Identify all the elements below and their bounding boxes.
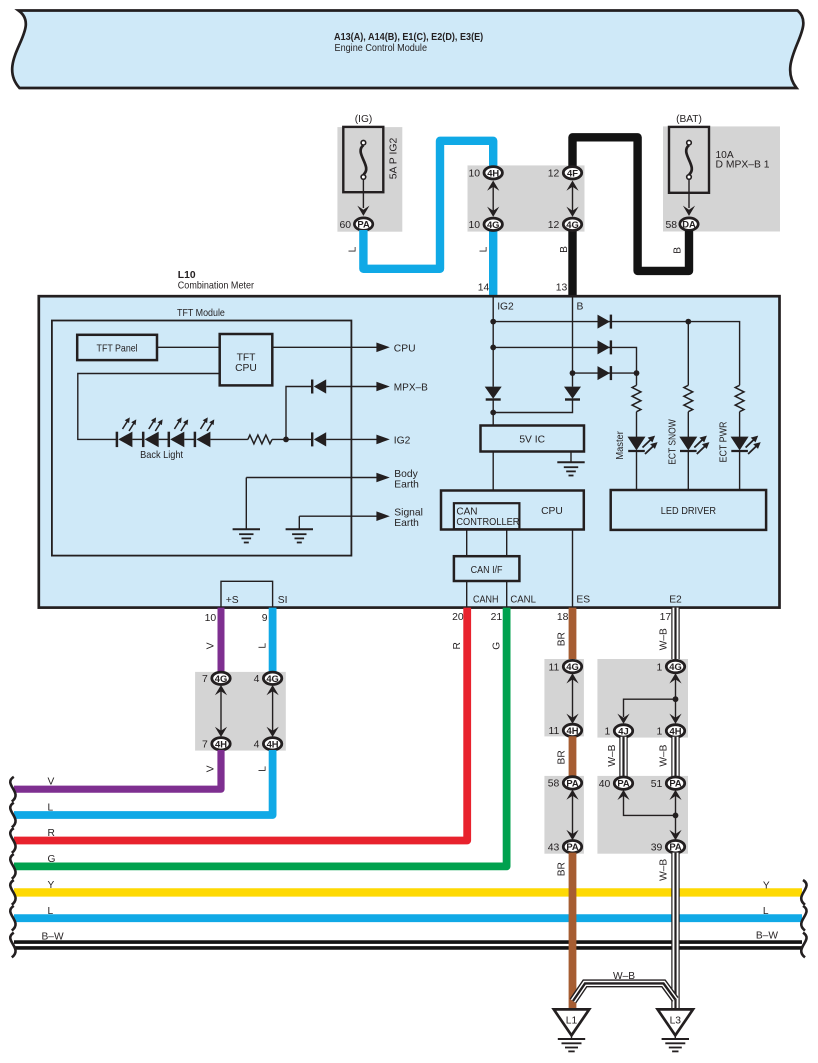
junction arrows 4G to 4H (BR): [566, 673, 578, 724]
svg-text:B: B: [577, 302, 584, 313]
wire TFT CPU to CPU output arrow: [272, 343, 415, 355]
TFT CPU box: [220, 334, 273, 385]
wire R (red) pin 20 to left edge: [14, 608, 467, 841]
connector 4H pin 1 (W-B): [657, 725, 685, 738]
diode MPX-B: [312, 379, 326, 393]
svg-text:5V IC: 5V IC: [519, 435, 545, 446]
resistor backlight: [248, 435, 272, 444]
wire B (black) from DA to connector 4F and meter pin 13: [573, 137, 690, 271]
wire L (blue) from PA to connector 4H and meter pin 14: [363, 141, 493, 269]
squiggle B-W left: [10, 933, 15, 958]
svg-text:10: 10: [468, 220, 480, 231]
connector PA pin 60: [339, 218, 372, 231]
svg-text:PA: PA: [566, 777, 579, 788]
diode IG2 backlight: [312, 432, 326, 446]
squiggle L left: [10, 803, 15, 828]
svg-text:PA: PA: [566, 841, 579, 852]
connector 4G pin 12: [548, 218, 582, 231]
connector shading box (BR PA-PA): [544, 776, 584, 854]
wire BR pin 18 to 4G: [569, 608, 577, 661]
LED DRIVER box: [611, 490, 766, 530]
resistor ECT SNOW: [684, 322, 693, 437]
combination meter L10 box: [39, 270, 780, 607]
svg-text:Y: Y: [48, 880, 55, 891]
svg-text:10: 10: [468, 169, 480, 180]
svg-text:14: 14: [478, 282, 490, 293]
+S / SI pin box: [221, 581, 288, 607]
connector shading box (4H/4G junction area): [468, 165, 585, 231]
wire W-B link L1 to L3: [573, 971, 675, 1001]
wire 40PA joins 51PA line: [617, 790, 681, 841]
svg-text:17: 17: [660, 612, 672, 623]
svg-text:(BAT): (BAT): [676, 114, 702, 125]
wire L (blue) bus: [14, 914, 802, 922]
svg-text:(IG): (IG): [355, 114, 373, 125]
resistor ECT PWR: [735, 385, 744, 437]
svg-text:CPU: CPU: [394, 343, 416, 354]
svg-text:L: L: [479, 246, 490, 252]
connector PA pin 58: [548, 777, 582, 790]
node row1 branch ECT SNOW: [685, 319, 691, 325]
squiggle V left: [10, 777, 15, 802]
svg-text:CANL: CANL: [510, 594, 536, 605]
svg-text:1: 1: [657, 662, 663, 673]
fuse 5A P IG2 (IG): [343, 114, 399, 192]
svg-text:G: G: [491, 642, 502, 650]
connector shading box (W-B PA-PA-PA): [597, 776, 688, 854]
resistor Master: [632, 373, 641, 437]
svg-text:4: 4: [254, 740, 260, 751]
svg-text:4G: 4G: [266, 673, 279, 684]
svg-text:W–B: W–B: [659, 744, 670, 766]
svg-text:CAN I/F: CAN I/F: [471, 565, 503, 576]
diode row 3: [598, 366, 611, 380]
wire diodes join to 5V IC: [492, 400, 494, 426]
svg-text:L: L: [348, 246, 359, 252]
svg-text:L: L: [763, 906, 769, 917]
ground body earth: [233, 529, 260, 542]
connector PA pin 43: [548, 841, 582, 854]
node row2 on IG2: [490, 345, 496, 351]
svg-text:BR: BR: [557, 862, 568, 876]
connector 4H pin 10: [468, 167, 502, 180]
svg-text:4G: 4G: [215, 673, 228, 684]
svg-text:R: R: [48, 828, 55, 839]
connector DA pin 58: [665, 218, 698, 231]
svg-text:B–W: B–W: [756, 931, 778, 942]
svg-text:PA: PA: [617, 778, 630, 789]
svg-text:LED DRIVER: LED DRIVER: [661, 506, 716, 517]
svg-text:V: V: [206, 765, 217, 772]
svg-text:TFT Panel: TFT Panel: [97, 343, 138, 354]
squiggle L2 left: [10, 906, 15, 931]
svg-text:W–B: W–B: [659, 628, 670, 650]
CAN I/F box: [454, 556, 520, 581]
connector 4G pin 4: [254, 672, 282, 685]
node row3 on B: [570, 370, 576, 376]
fuse 10A D MPX-B 1 (BAT): [669, 114, 770, 193]
svg-text:10: 10: [205, 613, 217, 624]
ECM banner A13(A) A14(B) E1(C) E2(D) E3(E): [12, 11, 803, 89]
wire TFT Panel to TFT CPU: [157, 346, 220, 348]
squiggle L right: [801, 906, 806, 931]
5V IC box: [481, 426, 585, 452]
ground 5V IC: [557, 462, 584, 475]
svg-text:4H: 4H: [267, 738, 279, 749]
connector PA pin 40: [599, 777, 633, 790]
ground L1: [554, 1009, 589, 1051]
squiggle Y right: [801, 880, 806, 905]
wire resistor to node: [272, 438, 312, 440]
svg-text:4H: 4H: [215, 738, 227, 749]
svg-text:L: L: [258, 643, 269, 649]
wire: [184, 438, 195, 440]
svg-text:BR: BR: [557, 632, 568, 646]
LED ECT PWR: [719, 422, 761, 491]
svg-text:11: 11: [549, 662, 560, 673]
wire V (violet) 4H to left edge: [14, 750, 221, 789]
svg-text:5A P IG2: 5A P IG2: [388, 137, 399, 179]
svg-text:20: 20: [452, 612, 464, 623]
backlight LED 3: [169, 417, 188, 447]
svg-text:40: 40: [599, 779, 611, 790]
connector shading box (BR 4G-4H): [544, 659, 584, 736]
connector shading box (IG fuse area): [337, 127, 402, 232]
wire diode row 3: [573, 372, 637, 374]
svg-text:58: 58: [548, 779, 560, 790]
svg-text:B: B: [673, 247, 684, 254]
svg-text:13: 13: [556, 282, 568, 293]
ground L3: [658, 1009, 693, 1051]
svg-text:W–B: W–B: [613, 971, 635, 982]
squiggle B-W right: [801, 933, 806, 958]
svg-text:18: 18: [557, 612, 569, 623]
connector 4H pin 11: [549, 724, 582, 737]
node row1 on IG2: [490, 319, 496, 325]
svg-text:G: G: [48, 854, 56, 865]
connector 4F pin 12: [548, 167, 582, 180]
connector 4G pin 11: [549, 660, 582, 673]
svg-text:L: L: [258, 766, 269, 772]
connector 4J pin 1: [605, 725, 633, 738]
TFT Module box: [52, 308, 352, 556]
junction arrows PA to PA (BR): [566, 790, 578, 841]
connector shading box (+S/SI 4G-4H): [195, 672, 286, 751]
svg-text:V: V: [206, 642, 217, 649]
svg-text:4H: 4H: [567, 725, 579, 736]
wire L (blue) 4H to left edge: [14, 750, 273, 815]
svg-text:L1: L1: [566, 1015, 578, 1026]
svg-text:W–B: W–B: [607, 744, 618, 766]
diode IG2 to 5V: [485, 387, 502, 400]
wire W-B pin 17 to 4G: [671, 608, 679, 661]
svg-text:4F: 4F: [567, 167, 578, 178]
svg-text:9: 9: [262, 613, 268, 624]
svg-text:BR: BR: [557, 750, 568, 764]
wire Y (yellow) bus: [14, 888, 802, 896]
svg-text:ECT PWR: ECT PWR: [719, 422, 730, 463]
wire diode row 2: [493, 347, 636, 373]
svg-text:PA: PA: [669, 778, 682, 789]
TFT Panel box: [77, 335, 157, 360]
wire V (violet) pin 10 to 4G: [218, 608, 225, 673]
svg-text:MPX–B: MPX–B: [394, 383, 428, 394]
CPU box: [441, 491, 584, 530]
wire B vertical: [572, 298, 574, 387]
svg-text:12: 12: [548, 220, 560, 231]
svg-text:B: B: [559, 246, 570, 253]
svg-text:V: V: [48, 777, 55, 788]
wire: [159, 438, 169, 440]
svg-text:4J: 4J: [618, 725, 628, 736]
junction arrows 4G to 4H (V): [215, 685, 227, 737]
connector 4H pin 7: [202, 738, 230, 751]
wire G (green) pin 21 to left edge: [14, 608, 507, 867]
svg-text:DA: DA: [682, 218, 696, 229]
svg-text:60: 60: [339, 220, 351, 231]
ground signal earth: [286, 529, 313, 542]
wire node up to MPX-B diode row: [286, 387, 312, 440]
svg-text:Signal: Signal: [394, 508, 423, 519]
wire 4G to 4H with branch to 4J: [617, 673, 681, 724]
svg-text:4G: 4G: [487, 219, 500, 230]
diode row 1: [598, 315, 611, 329]
svg-text:B–W: B–W: [42, 932, 64, 943]
svg-text:4H: 4H: [487, 167, 499, 178]
svg-text:Back Light: Back Light: [140, 450, 183, 461]
LED Master: [615, 431, 657, 490]
connector 4H pin 4: [254, 738, 282, 751]
svg-text:4H: 4H: [670, 725, 682, 736]
svg-text:Engine Control Module: Engine Control Module: [335, 43, 428, 54]
svg-text:1: 1: [657, 727, 663, 738]
connector shading box (BAT fuse area): [663, 126, 780, 231]
wire BR 43PA to ground L1: [569, 853, 577, 1010]
svg-text:7: 7: [202, 740, 208, 751]
squiggle R left: [10, 828, 15, 853]
wire CAN controller to CAN I/F (CANL): [506, 529, 508, 556]
svg-text:L: L: [48, 803, 54, 814]
svg-text:4G: 4G: [566, 661, 579, 672]
wire L (blue) pin 9 to 4G: [269, 608, 277, 673]
wire: [132, 438, 143, 440]
svg-text:51: 51: [651, 779, 663, 790]
wire diode row 1: [493, 322, 739, 386]
svg-text:ES: ES: [576, 594, 590, 605]
backlight LED 2: [143, 417, 162, 447]
svg-text:A13(A), A14(B), E1(C), E2(D),: A13(A), A14(B), E1(C), E2(D), E3(E): [334, 32, 483, 43]
svg-text:4G: 4G: [669, 661, 682, 672]
wire 5V IC to CPU: [492, 452, 494, 491]
connector shading box (W-B 4G-4J-4H): [597, 659, 688, 738]
backlight LED 4: [195, 417, 214, 447]
svg-text:ECT SNOW: ECT SNOW: [667, 419, 678, 465]
svg-text:R: R: [452, 642, 463, 649]
connector 4G pin 10: [468, 218, 502, 231]
wire W-B 4H to 51PA: [671, 737, 679, 777]
svg-text:12: 12: [548, 169, 560, 180]
svg-text:CONTROLLER: CONTROLLER: [456, 517, 519, 528]
junction arrows 4G to 4H (L): [267, 685, 279, 737]
wire CPU to pin ES: [572, 530, 574, 608]
svg-text:Earth: Earth: [394, 518, 419, 529]
svg-text:IG2: IG2: [394, 435, 411, 446]
connector 4G pin 7: [202, 672, 230, 685]
wire CAN controller to CAN I/F (CANH): [466, 529, 468, 556]
diode row 2: [598, 340, 611, 354]
wire B-W (black-white) bus: [14, 940, 802, 949]
backlight LED 1: [117, 417, 136, 447]
svg-text:1: 1: [605, 727, 611, 738]
svg-text:58: 58: [665, 220, 677, 231]
svg-text:39: 39: [651, 843, 663, 854]
wire IG2 vertical: [492, 298, 494, 387]
svg-text:PA: PA: [357, 218, 370, 229]
svg-text:IG2: IG2: [497, 302, 514, 313]
svg-text:TFT Module: TFT Module: [177, 308, 225, 319]
svg-text:Earth: Earth: [394, 479, 419, 490]
svg-text:D MPX–B 1: D MPX–B 1: [716, 160, 770, 171]
wire to resistor: [210, 438, 248, 440]
svg-text:43: 43: [548, 843, 560, 854]
svg-text:W–B: W–B: [659, 859, 670, 881]
wire BR 4H to PA: [569, 736, 577, 777]
CAN CONTROLLER box: [454, 503, 520, 529]
svg-text:SI: SI: [278, 595, 288, 606]
svg-text:PA: PA: [669, 841, 682, 852]
junction arrows 4H to 4G: [487, 181, 499, 217]
svg-text:4G: 4G: [566, 219, 579, 230]
svg-text:TFT: TFT: [237, 352, 257, 363]
wire IG2 row to arrow: [326, 435, 410, 447]
node 5V join: [490, 410, 496, 416]
svg-text:Combination Meter: Combination Meter: [178, 281, 255, 292]
svg-text:L: L: [48, 906, 54, 917]
junction arrows 4F to 4G: [566, 181, 578, 217]
wire fuse IG to PA: [362, 179, 364, 208]
svg-text:E2: E2: [669, 594, 682, 605]
LED ECT SNOW: [667, 419, 709, 490]
svg-text:CAN: CAN: [456, 506, 477, 517]
node backlight junction: [283, 437, 289, 443]
connector PA pin 51: [651, 777, 685, 790]
svg-text:21: 21: [491, 612, 503, 623]
wire backlight feed: [78, 374, 220, 440]
wire body earth: [246, 469, 419, 530]
wire W-B 4J to 40PA: [619, 737, 627, 777]
svg-text:11: 11: [549, 726, 560, 737]
svg-text:L10: L10: [178, 270, 196, 281]
svg-text:CPU: CPU: [541, 506, 563, 517]
wire W-B 39PA to ground L3: [671, 853, 679, 1010]
squiggle G left: [10, 854, 15, 879]
wire CAN I/F to pin CANL: [506, 581, 508, 608]
wire CAN I/F to pin CANH: [466, 581, 468, 608]
svg-text:Body: Body: [394, 469, 418, 480]
node master feed: [634, 370, 640, 376]
wire fuse BAT to DA: [688, 179, 690, 208]
connector 4G pin 1 (W-B): [657, 660, 685, 673]
svg-text:CPU: CPU: [235, 363, 257, 374]
svg-text:CANH: CANH: [473, 594, 499, 605]
svg-text:Master: Master: [615, 431, 626, 460]
wire MPX-B to arrow: [326, 382, 428, 394]
wire 5V IC to ground: [570, 452, 572, 463]
squiggle Y left: [10, 880, 15, 905]
svg-text:+S: +S: [226, 595, 239, 606]
svg-text:4: 4: [254, 674, 260, 685]
svg-text:L3: L3: [670, 1015, 682, 1026]
svg-text:7: 7: [202, 674, 208, 685]
diode B to 5V: [564, 387, 581, 400]
wire signal earth: [299, 508, 423, 530]
svg-text:Y: Y: [763, 880, 770, 891]
connector PA pin 39: [651, 841, 685, 854]
